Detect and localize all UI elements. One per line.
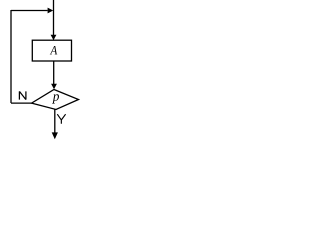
wire: feedback bottom horizontal to diamond: [11, 102, 32, 104]
decision diamond P: [32, 90, 79, 110]
process box A: [32, 40, 71, 61]
label A in box: [50, 46, 57, 54]
wire: decision P down (Y branch): [54, 110, 56, 134]
arrowhead into decision P: [51, 84, 57, 90]
wire: entry vertical from top into box A: [53, 0, 55, 36]
label N branch: [19, 91, 26, 99]
wire: feedback top horizontal: [11, 10, 48, 12]
arrowhead into box A: [51, 35, 57, 41]
arrowhead of feedback into entry line: [48, 8, 54, 14]
label Y branch: [57, 114, 65, 124]
label P in diamond: [52, 94, 59, 103]
wire: feedback left vertical: [10, 10, 12, 103]
flowchart: loop structure (A box, P decision): [0, 0, 99, 141]
arrowhead of exit Y branch: [52, 132, 58, 139]
wire: box A to decision P: [53, 61, 55, 85]
